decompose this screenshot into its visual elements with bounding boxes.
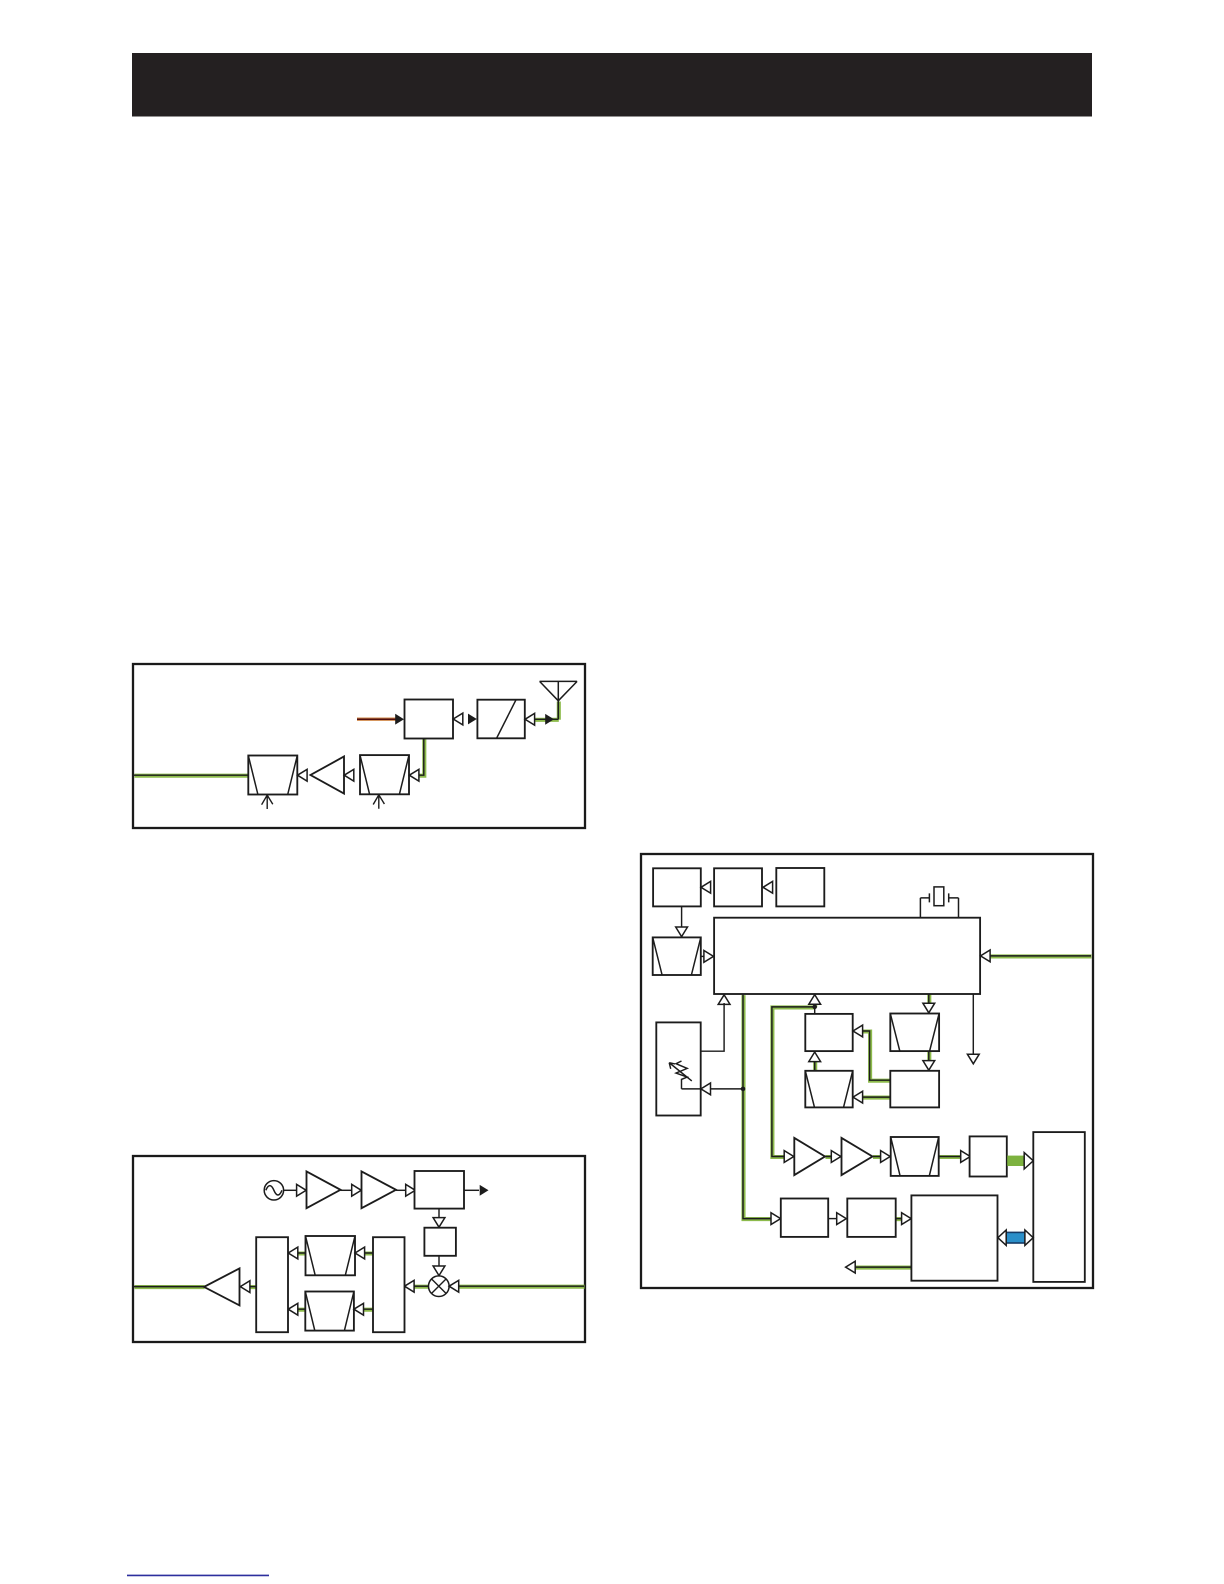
IF amp box IC11 (right) — [373, 1237, 405, 1332]
CPU box B3 — [911, 1195, 997, 1280]
arrow TCXO into PLL IC (hollow, up) — [718, 995, 730, 1005]
logic box B1 — [781, 1199, 828, 1237]
wire PA-to-BPF drop (green) — [418, 739, 424, 776]
wire TCXO link — [682, 1003, 725, 1061]
arrow into ref filter (hollow, down) — [676, 927, 688, 937]
wire junction down to VCO box A — [814, 1007, 816, 1014]
diagram frame 3 (PLL unit) — [641, 854, 1093, 1288]
wire amp row links (green) — [825, 1154, 881, 1159]
arrow trunk2 into PLL IC (hollow, up) — [809, 995, 821, 1005]
wire IF output (green, to left frame edge) — [134, 1285, 205, 1290]
wire TX drive (red) — [357, 718, 397, 721]
splitter box U10 — [415, 1171, 465, 1209]
arrow into amp (hollow) — [352, 1184, 362, 1196]
wire trimmer to junction — [682, 1088, 744, 1090]
arrow RX from antenna (hollow) — [525, 713, 535, 725]
crystal filter FI10 (top) — [306, 1236, 356, 1275]
arrow into LO amp (hollow, down) — [433, 1218, 445, 1228]
wire PLL data input (green, from right frame edge) — [990, 954, 1092, 959]
arrow into mixer (hollow, down) — [433, 1266, 445, 1276]
reference filter FI20 — [653, 937, 701, 975]
memory box M3 — [776, 868, 824, 906]
wire B1 to B2 — [828, 1218, 837, 1220]
buffer amplifier Q10 — [307, 1171, 341, 1208]
wire splitter down — [438, 1209, 440, 1218]
wire IF input (green, from right frame edge) — [459, 1284, 585, 1289]
wire unlock output (dangling) — [972, 994, 974, 1055]
arrow into amp G2 (hollow, right) — [831, 1151, 841, 1163]
shift register box with trimmer — [656, 1022, 700, 1115]
thick green signal arrow to RF unit — [1007, 1156, 1024, 1166]
antenna ANT1 — [540, 681, 578, 719]
arrow PLL data in (hollow) — [981, 950, 991, 962]
band-pass filter E — [891, 1137, 939, 1176]
tuning arrow of FI4 — [262, 795, 273, 809]
arrow TX into U1 (solid) — [395, 714, 404, 725]
title bar — [132, 53, 1092, 117]
wire AF out of B3 (green, dangling left) — [855, 1265, 912, 1270]
wire amp link (green) — [250, 1285, 257, 1290]
arrow into filter D (hollow, down) — [923, 1003, 935, 1013]
wire amp link 2 — [396, 1189, 406, 1191]
wire bottom crystal-filter links (green) — [298, 1307, 374, 1312]
arrow into splitter (hollow) — [406, 1184, 416, 1196]
arrow TX into FI2 (solid) — [468, 714, 477, 725]
arrow into box B (hollow, down) — [923, 1061, 935, 1071]
arrow into B2 (hollow, right) — [837, 1213, 847, 1225]
amplifier G2 — [842, 1138, 873, 1175]
trimmer resistor R20 — [676, 1061, 687, 1089]
arrow LO out (solid) — [480, 1185, 489, 1196]
amplifier box U1 — [405, 700, 454, 739]
buffer box B — [890, 1071, 939, 1108]
memory box M1 — [653, 868, 701, 906]
rx amplifier Q1 — [311, 757, 345, 794]
crystal X20 — [920, 893, 958, 917]
mixer IC10 — [429, 1276, 450, 1297]
arrow into filter C (hollow) — [853, 1091, 863, 1103]
wire green trunk 2 (VCO loop to amp row) — [772, 1003, 815, 1157]
arrow into box F (hollow, right) — [961, 1151, 971, 1163]
arrow into FI3 (hollow) — [409, 769, 419, 781]
blue data bus double arrow — [998, 1230, 1033, 1245]
IF amp box IC12 (left) — [256, 1237, 288, 1332]
band-pass filter FI3 (tuned) — [360, 755, 409, 794]
arrow into PLL IC (hollow, right) — [704, 951, 714, 963]
arrow into Q13 (hollow) — [240, 1281, 250, 1293]
arrow into B1 (hollow, right) — [771, 1213, 781, 1225]
diagram frame 1 (front-end) — [133, 664, 585, 828]
arrow into mixer right (hollow) — [449, 1280, 459, 1292]
wire top crystal-filter links (green) — [298, 1251, 374, 1256]
low-pass filter FI2 — [477, 700, 524, 739]
arrow into shift register (hollow) — [701, 1083, 711, 1095]
band-pass filter FI4 (tuned) — [248, 756, 297, 795]
footer rule — [127, 1574, 269, 1576]
IF output amplifier Q13 — [204, 1268, 240, 1305]
tuning arrow of FI3 — [373, 795, 384, 809]
arrow into M2 (hollow) — [763, 881, 773, 893]
arrow unlock (hollow, down) — [967, 1054, 979, 1064]
wire divider drop (green) — [927, 994, 932, 1004]
arrow RX out of FI2 (hollow) — [453, 713, 463, 725]
junction dot on trunk 1 — [741, 1087, 746, 1092]
oscillator X1 — [264, 1181, 283, 1200]
amplifier G1 — [794, 1138, 825, 1175]
wire oscillator out — [284, 1189, 297, 1191]
wire green trunk 1 (to bottom row) — [743, 995, 772, 1220]
memory box M2 — [714, 868, 762, 906]
wire buffer link — [341, 1189, 353, 1191]
wire M1 down to filter — [681, 906, 683, 927]
wire mixer to IF box (green) — [414, 1284, 429, 1289]
junction dot on trunk 2 — [812, 1005, 817, 1010]
VCO box A — [805, 1014, 852, 1051]
arrow into box A right (hollow) — [853, 1025, 863, 1037]
arrow into amp G1 (hollow, right) — [784, 1151, 794, 1163]
arrow into buffer (hollow) — [297, 1184, 307, 1196]
divider filter D — [890, 1014, 939, 1052]
arrow mixer to IF amp (hollow) — [405, 1280, 415, 1292]
buffer box F — [970, 1136, 1007, 1176]
amplifier Q11 — [362, 1171, 397, 1208]
arrow into FI4 (hollow) — [298, 769, 308, 781]
arrow into CPU B3 (hollow, right) — [902, 1213, 912, 1225]
arrow FI10 to IF amp (hollow) — [288, 1247, 298, 1259]
arrow FI11 to IF amp (hollow) — [288, 1303, 298, 1315]
wire LO output — [464, 1189, 479, 1191]
wire VCO box A feed (green) — [863, 1031, 891, 1081]
wire box B to filter C (green) — [863, 1095, 891, 1100]
wire antenna feed (green) — [535, 701, 559, 720]
arrow into filter E (hollow, right) — [881, 1151, 891, 1163]
logic box B2 — [847, 1199, 895, 1237]
arrow into FI10 (hollow) — [355, 1247, 365, 1259]
RF unit box (tall) — [1033, 1132, 1085, 1282]
diagram frame 2 (IF chain) — [133, 1156, 585, 1342]
wire filter E to box F (green) — [939, 1154, 962, 1159]
arrow filter C into box A (hollow, up) — [809, 1052, 821, 1062]
LO amplifier box Q12 — [424, 1228, 456, 1256]
wire filter C up to box A (green) — [813, 1061, 818, 1071]
crystal filter FI11 (bottom) — [305, 1292, 354, 1331]
wire FI20 to PLL IC — [701, 955, 705, 957]
wire RX out (green, to left frame edge) — [134, 773, 249, 778]
loop filter C — [805, 1071, 852, 1108]
arrow into Q1 (hollow) — [344, 769, 354, 781]
wire LO to mixer — [438, 1256, 440, 1268]
arrow into FI11 (hollow) — [354, 1303, 364, 1315]
wire B2 to B3 stub (green) — [896, 1217, 903, 1222]
arrow TX to antenna (solid) — [545, 714, 554, 725]
wire divider to box B (green) — [927, 1051, 932, 1061]
arrow into M1 (hollow) — [701, 881, 711, 893]
arrow AF out (hollow, dangling left) — [846, 1261, 856, 1273]
PLL IC IC20 — [714, 918, 980, 994]
